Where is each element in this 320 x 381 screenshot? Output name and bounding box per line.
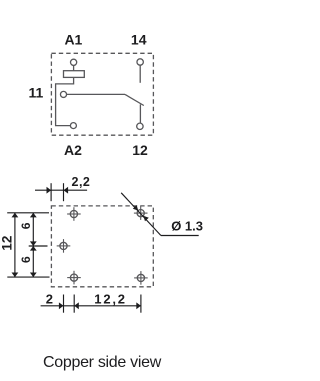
- svg-text:2: 2: [46, 292, 53, 307]
- svg-text:2,2: 2,2: [72, 175, 91, 189]
- svg-text:12,2: 12,2: [94, 292, 127, 307]
- svg-text:Copper side view: Copper side view: [43, 354, 162, 371]
- svg-text:12: 12: [132, 142, 148, 158]
- svg-text:Ø 1.3: Ø 1.3: [171, 219, 203, 234]
- svg-text:A2: A2: [64, 142, 82, 158]
- svg-text:11: 11: [28, 85, 43, 101]
- svg-text:14: 14: [131, 31, 147, 47]
- svg-text:6: 6: [19, 222, 33, 229]
- svg-text:A1: A1: [64, 31, 82, 47]
- svg-text:6: 6: [19, 256, 33, 263]
- svg-text:12: 12: [0, 236, 14, 251]
